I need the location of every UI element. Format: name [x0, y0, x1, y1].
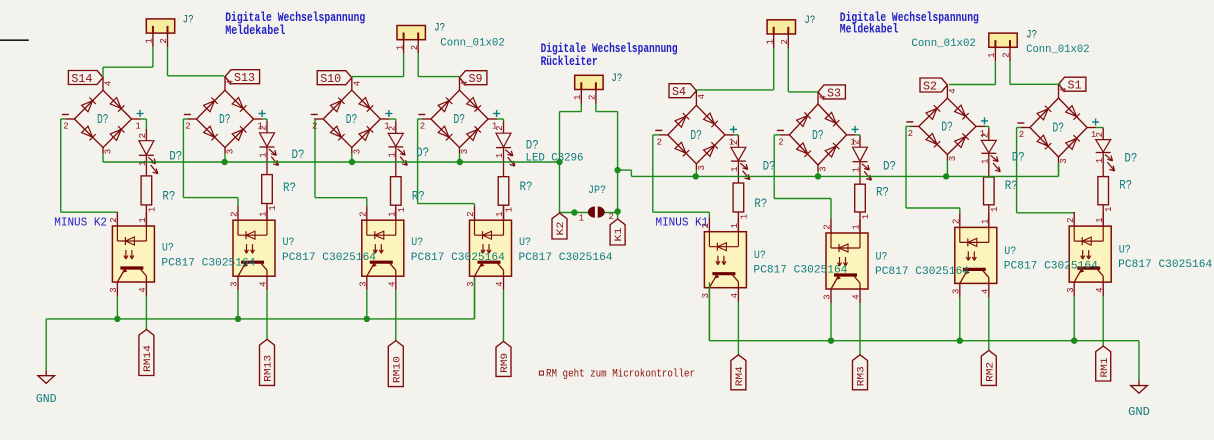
svg-text:1: 1: [987, 52, 997, 57]
svg-text:LED C3296: LED C3296: [526, 153, 584, 165]
svg-text:K1: K1: [614, 228, 625, 242]
svg-text:2: 2: [701, 223, 711, 228]
svg-text:RM4: RM4: [735, 366, 746, 386]
svg-text:2: 2: [466, 211, 476, 216]
svg-text:S2: S2: [923, 80, 937, 94]
svg-text:3: 3: [952, 289, 962, 294]
svg-text:4: 4: [259, 281, 269, 286]
svg-text:D?: D?: [1012, 151, 1025, 165]
svg-text:2: 2: [388, 126, 398, 131]
svg-text:GND: GND: [36, 392, 57, 406]
svg-text:PC817 C3025164: PC817 C3025164: [282, 252, 376, 264]
svg-text:R?: R?: [283, 181, 296, 195]
svg-text:2: 2: [823, 224, 833, 229]
svg-text:4: 4: [104, 81, 114, 86]
svg-text:3: 3: [948, 156, 958, 161]
svg-text:1: 1: [981, 159, 991, 164]
svg-text:D?: D?: [97, 113, 109, 128]
svg-text:RM14: RM14: [143, 345, 154, 372]
svg-text:S3: S3: [827, 86, 841, 100]
svg-text:2: 2: [1002, 52, 1012, 57]
svg-text:S9: S9: [469, 72, 483, 86]
svg-text:1: 1: [765, 39, 775, 44]
svg-text:2: 2: [159, 38, 169, 43]
svg-text:1: 1: [573, 95, 583, 100]
svg-text:U?: U?: [876, 252, 888, 264]
svg-text:2: 2: [657, 138, 662, 148]
svg-text:RM10: RM10: [392, 356, 403, 383]
svg-text:1: 1: [730, 223, 740, 228]
svg-text:U?: U?: [162, 243, 174, 255]
svg-text:2: 2: [1066, 217, 1076, 222]
svg-text:PC817 C3025164: PC817 C3025164: [1004, 260, 1098, 272]
svg-text:3: 3: [226, 149, 236, 154]
svg-text:RM9: RM9: [500, 353, 511, 373]
svg-text:PC817 C3025164: PC817 C3025164: [1118, 259, 1212, 271]
svg-text:Conn_01x02: Conn_01x02: [1026, 44, 1090, 56]
svg-text:3: 3: [701, 293, 711, 298]
svg-text:3: 3: [353, 149, 363, 154]
svg-text:2: 2: [608, 212, 613, 222]
svg-text:4: 4: [1095, 287, 1105, 292]
svg-text:3: 3: [358, 281, 368, 286]
svg-text:Meldekabel: Meldekabel: [840, 21, 899, 36]
svg-text:3: 3: [460, 149, 470, 154]
svg-text:D?: D?: [1124, 151, 1137, 165]
svg-text:1: 1: [388, 152, 398, 157]
svg-text:J?: J?: [611, 73, 622, 85]
svg-text:4: 4: [852, 294, 862, 299]
svg-text:K2: K2: [556, 222, 567, 236]
svg-text:4: 4: [387, 281, 397, 286]
svg-text:2: 2: [588, 95, 598, 100]
svg-text:PC817 C3025164: PC817 C3025164: [875, 266, 969, 278]
svg-text:R?: R?: [754, 197, 767, 211]
svg-text:U?: U?: [519, 237, 531, 249]
svg-text:1: 1: [147, 207, 157, 212]
svg-text:2: 2: [852, 139, 862, 144]
svg-text:2: 2: [981, 133, 991, 138]
svg-text:D?: D?: [763, 159, 776, 173]
svg-text:3: 3: [819, 166, 829, 171]
svg-text:1: 1: [852, 224, 862, 229]
svg-text:D?: D?: [883, 160, 896, 174]
svg-text:4: 4: [353, 81, 363, 86]
svg-text:R?: R?: [876, 186, 889, 200]
svg-text:RM3: RM3: [857, 366, 868, 386]
svg-text:4: 4: [948, 88, 958, 93]
svg-text:2: 2: [420, 122, 425, 132]
svg-text:D?: D?: [1053, 122, 1065, 137]
svg-text:1: 1: [495, 153, 505, 158]
svg-text:GND: GND: [1128, 405, 1150, 419]
svg-text:3: 3: [1059, 158, 1069, 163]
svg-text:PC817 C3025164: PC817 C3025164: [411, 252, 505, 264]
svg-text:D?: D?: [219, 113, 231, 128]
svg-text:RM2: RM2: [985, 362, 996, 382]
svg-text:2: 2: [312, 122, 317, 132]
svg-text:1: 1: [579, 214, 584, 224]
svg-text:J?: J?: [183, 15, 194, 27]
svg-text:S4: S4: [672, 85, 686, 99]
svg-text:1: 1: [861, 214, 871, 219]
svg-text:3: 3: [697, 165, 707, 170]
svg-text:1: 1: [1095, 158, 1105, 163]
svg-text:1: 1: [145, 38, 155, 43]
svg-text:4: 4: [697, 94, 707, 99]
svg-text:1: 1: [1104, 207, 1114, 212]
svg-text:JP?: JP?: [588, 185, 606, 197]
svg-text:1: 1: [259, 211, 269, 216]
svg-text:S10: S10: [320, 72, 341, 86]
svg-text:1: 1: [852, 167, 862, 172]
svg-text:D?: D?: [416, 146, 429, 160]
svg-text:PC817 C3025164: PC817 C3025164: [753, 265, 847, 277]
svg-text:D?: D?: [292, 148, 305, 162]
svg-text:3: 3: [104, 149, 114, 154]
svg-text:RM13: RM13: [264, 355, 275, 382]
svg-text:4: 4: [981, 289, 991, 294]
svg-text:S13: S13: [234, 71, 255, 85]
svg-text:1: 1: [138, 161, 148, 166]
svg-text:J?: J?: [434, 23, 445, 35]
svg-text:U?: U?: [754, 250, 766, 262]
svg-text:U?: U?: [283, 237, 295, 249]
svg-text:S1: S1: [1068, 79, 1082, 93]
svg-text:2: 2: [495, 125, 505, 130]
svg-text:J?: J?: [1026, 30, 1037, 42]
svg-text:PC817 C3025164: PC817 C3025164: [161, 258, 255, 270]
svg-text:2: 2: [359, 211, 369, 216]
svg-text:1: 1: [739, 214, 749, 219]
svg-text:RM geht zum Microkontroller: RM geht zum Microkontroller: [546, 369, 695, 381]
svg-text:2: 2: [1019, 130, 1024, 140]
svg-text:Meldekabel: Meldekabel: [225, 23, 285, 38]
svg-text:2: 2: [138, 133, 148, 138]
svg-text:1: 1: [395, 45, 405, 50]
svg-text:D?: D?: [346, 113, 358, 128]
svg-text:1: 1: [1095, 217, 1105, 222]
svg-text:R?: R?: [162, 189, 175, 203]
svg-text:D?: D?: [169, 150, 182, 164]
svg-text:2: 2: [952, 219, 962, 224]
svg-text:D?: D?: [454, 113, 466, 128]
svg-text:1: 1: [138, 217, 148, 222]
svg-text:1: 1: [397, 207, 407, 212]
svg-text:2: 2: [185, 122, 190, 132]
svg-text:1: 1: [388, 211, 398, 216]
svg-text:3: 3: [230, 281, 240, 286]
svg-text:U?: U?: [1119, 245, 1131, 257]
svg-text:2: 2: [908, 129, 913, 139]
svg-text:2: 2: [410, 45, 420, 50]
svg-text:PC817 C3025164: PC817 C3025164: [519, 252, 613, 264]
svg-text:1: 1: [268, 205, 278, 210]
svg-text:Rückleiter: Rückleiter: [541, 54, 598, 69]
svg-text:D?: D?: [941, 121, 953, 136]
svg-text:1: 1: [259, 152, 269, 157]
svg-text:4: 4: [495, 281, 505, 286]
svg-text:4: 4: [138, 287, 148, 292]
svg-text:R?: R?: [1005, 179, 1018, 193]
svg-text:2: 2: [730, 140, 740, 145]
svg-text:4: 4: [730, 293, 740, 298]
svg-text:D?: D?: [690, 129, 702, 144]
svg-text:1: 1: [990, 207, 1000, 212]
svg-text:2: 2: [230, 211, 240, 216]
svg-text:2: 2: [109, 217, 119, 222]
svg-text:RM1: RM1: [1100, 358, 1111, 378]
svg-text:Conn_01x02: Conn_01x02: [440, 38, 505, 50]
svg-text:R?: R?: [520, 180, 533, 194]
svg-text:2: 2: [1095, 132, 1105, 137]
svg-text:U?: U?: [411, 237, 423, 249]
svg-text:3: 3: [1066, 287, 1076, 292]
svg-text:2: 2: [778, 138, 783, 148]
svg-text:MINUS K2: MINUS K2: [54, 215, 107, 229]
svg-text:3: 3: [466, 281, 476, 286]
svg-text:J?: J?: [804, 15, 815, 27]
svg-text:1: 1: [135, 122, 140, 132]
svg-text:2: 2: [780, 39, 790, 44]
svg-text:R?: R?: [412, 189, 425, 203]
svg-text:1: 1: [495, 211, 505, 216]
svg-text:1: 1: [981, 219, 991, 224]
svg-text:2: 2: [259, 125, 269, 130]
svg-text:U?: U?: [1004, 246, 1016, 258]
svg-text:1: 1: [505, 207, 515, 212]
svg-text:2: 2: [63, 122, 68, 132]
svg-text:3: 3: [109, 287, 119, 292]
svg-text:3: 3: [823, 294, 833, 299]
svg-text:R?: R?: [1119, 179, 1132, 193]
svg-text:1: 1: [730, 166, 740, 171]
svg-text:D?: D?: [526, 139, 539, 153]
svg-text:D?: D?: [812, 129, 824, 144]
svg-text:Conn_01x02: Conn_01x02: [911, 38, 976, 50]
svg-text:S14: S14: [71, 72, 92, 86]
